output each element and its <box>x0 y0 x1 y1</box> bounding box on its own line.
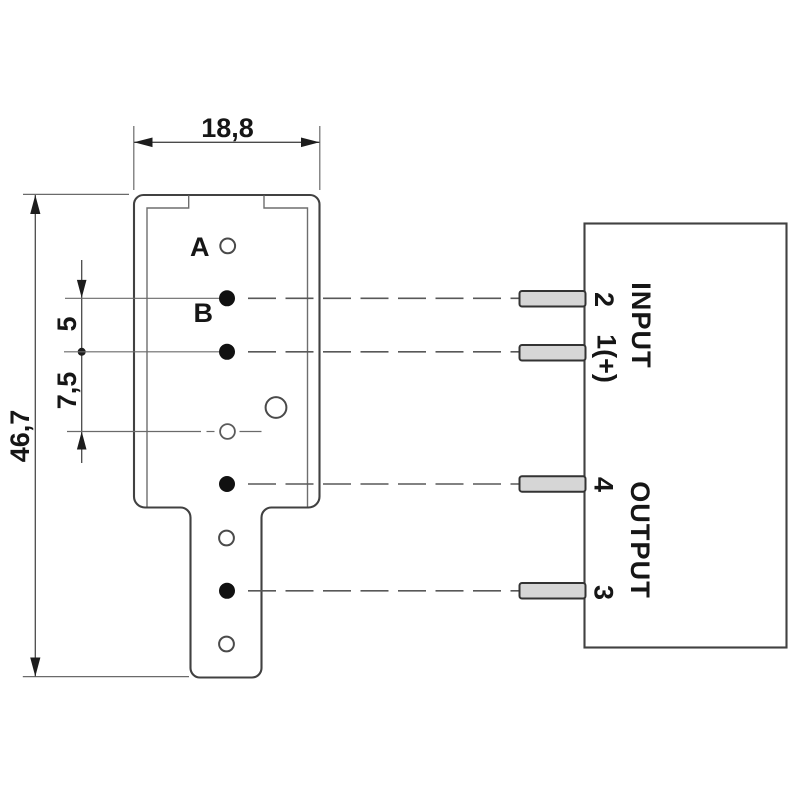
large hole <box>266 397 287 418</box>
svg-text:1(+): 1(+) <box>592 334 622 383</box>
solder pin row 1 <box>219 344 235 360</box>
pin 2 <box>520 291 586 307</box>
dimension junction dot <box>78 348 86 356</box>
dimension 46,7 line <box>34 195 36 677</box>
svg-text:OUTPUT: OUTPUT <box>625 481 655 599</box>
svg-text:INPUT: INPUT <box>626 282 656 369</box>
open hole row slot <box>220 424 235 439</box>
svg-text:18,8: 18,8 <box>201 113 254 143</box>
pin 4 <box>520 476 586 492</box>
hole A <box>220 239 235 254</box>
svg-text:7,5: 7,5 <box>52 372 82 410</box>
dimension 18,8 line <box>134 141 320 143</box>
dimension 18,8 extension line left <box>133 126 135 190</box>
plate inner contour left <box>147 196 189 507</box>
solder pin row 3 <box>219 583 235 599</box>
dimension 5 arrow down <box>77 280 87 298</box>
centerline row 1 <box>64 351 219 353</box>
dimension 7,5 arrow up <box>77 432 87 450</box>
dimension 18,8 arrow right <box>301 138 320 148</box>
pin 1 <box>520 345 586 361</box>
open hole stem lower <box>219 637 234 652</box>
dimension 46,7 arrow bottom <box>30 658 40 677</box>
hidden line row B to pin 2 <box>248 297 520 299</box>
relay body outline <box>585 224 787 648</box>
svg-text:4: 4 <box>589 477 619 492</box>
pin 3 <box>520 583 586 599</box>
svg-text:A: A <box>190 232 210 262</box>
svg-text:46,7: 46,7 <box>5 410 35 463</box>
dimension 46,7 extension line bottom <box>23 676 189 678</box>
solder pin row 4 <box>219 476 235 492</box>
dimension 18,8 arrow left <box>134 138 153 148</box>
hidden line row 4 to pin 4 <box>248 483 520 485</box>
svg-text:5: 5 <box>52 316 82 331</box>
hidden line row 3 to pin 3 <box>248 590 520 592</box>
dimension 46,7 extension line top <box>23 193 129 195</box>
svg-text:B: B <box>194 298 214 328</box>
centerline row B <box>65 297 219 299</box>
plate inner contour right <box>264 196 308 507</box>
centerline row slot dash right <box>240 431 262 433</box>
hidden line row 1 to pin 1 <box>248 351 520 353</box>
dimension 5 / 7,5 shared line <box>81 260 83 463</box>
hole B solder pin <box>219 290 235 306</box>
svg-text:3: 3 <box>589 585 619 600</box>
open hole stem upper <box>219 531 234 546</box>
dimension 46,7 arrow top <box>30 195 40 214</box>
svg-text:2: 2 <box>589 292 619 307</box>
centerline row slot <box>67 431 201 433</box>
dimension 18,8 extension line right <box>319 126 321 190</box>
centerline row slot dash left <box>207 431 215 433</box>
mounting plate outline <box>134 195 320 678</box>
